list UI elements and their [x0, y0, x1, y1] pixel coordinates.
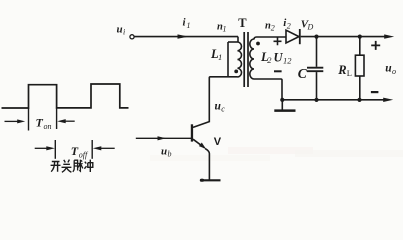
- junction dot secondary bottom: [280, 98, 284, 102]
- minus sign output: [371, 91, 379, 93]
- svg-text:V: V: [214, 136, 222, 148]
- capacitor bottom lead: [316, 72, 318, 100]
- svg-text:D: D: [307, 23, 314, 32]
- capacitor C top lead: [316, 37, 318, 67]
- svg-text:1: 1: [223, 25, 227, 34]
- Toff left arrow: [35, 147, 47, 149]
- svg-text:U: U: [274, 51, 284, 65]
- plus sign output: [371, 41, 380, 50]
- primary bottom lead to collector riser: [209, 77, 237, 122]
- pulse waveform 开关脉冲 square wave: [2, 84, 129, 108]
- transistor collector diagonal: [193, 122, 209, 128]
- transistor base bar: [191, 124, 193, 141]
- top rail arrow: [384, 34, 394, 38]
- svg-text:o: o: [392, 67, 396, 76]
- junction dot RL bottom: [357, 98, 361, 102]
- svg-text:T: T: [71, 144, 79, 158]
- capacitor plate bottom: [307, 70, 323, 72]
- transformer secondary winding L2: coil arcs: [250, 39, 254, 79]
- secondary bottom lead: [254, 79, 282, 100]
- input terminal u_i circle: [130, 35, 134, 39]
- bottom rail wire: [282, 99, 385, 101]
- ground bar secondary: [274, 109, 295, 112]
- top rail wire: [301, 36, 386, 38]
- svg-text:2: 2: [267, 55, 272, 65]
- faint scan smudge pink band: [228, 147, 313, 154]
- plus sign U12: [274, 37, 282, 45]
- svg-text:R: R: [337, 63, 346, 77]
- Toff left tick: [54, 140, 56, 159]
- ground bar transistor: [200, 179, 220, 181]
- primary top lead: [228, 41, 238, 43]
- junction dot diode-capacitor: [314, 35, 318, 39]
- tick: pulse1 left edge extension: [28, 108, 30, 131]
- Ton left arrow: [5, 120, 19, 122]
- Toff right tick: [91, 140, 93, 159]
- transistor V base wire: [136, 137, 191, 139]
- primary left return line: [227, 42, 229, 77]
- transformer core line 2: [247, 32, 249, 87]
- junction dot RL top: [358, 35, 362, 39]
- primary coil arcs: [238, 42, 242, 77]
- faint scan smudge gray band right: [295, 150, 403, 157]
- resistor RL bottom lead: [359, 76, 361, 100]
- tick: pulse1 right edge extension: [56, 108, 58, 129]
- svg-text:u: u: [117, 24, 123, 36]
- svg-text:L: L: [347, 68, 352, 78]
- ground bar left end blob: [200, 179, 204, 182]
- minus sign U12: [274, 70, 282, 72]
- secondary top lead to diode: [254, 37, 286, 40]
- svg-text:T: T: [238, 16, 247, 30]
- emitter arrow head: [199, 143, 206, 149]
- 开关脉冲 caption: char 关: [62, 160, 72, 173]
- Toff right arrow: [101, 147, 115, 149]
- svg-text:1: 1: [218, 52, 222, 62]
- svg-text:C: C: [298, 66, 308, 81]
- transistor emitter diagonal: [193, 139, 205, 148]
- transformer core line 1: [243, 32, 245, 87]
- diode VD triangle: [286, 30, 299, 43]
- resistor RL top lead: [359, 37, 361, 56]
- diode cathode bar: [299, 29, 301, 44]
- polarity dot secondary: [256, 42, 260, 46]
- svg-text:u: u: [161, 146, 167, 158]
- arrow on base wire: [158, 136, 167, 140]
- svg-text:on: on: [44, 122, 52, 131]
- emitter vertical wire: [205, 149, 209, 181]
- faint scan smudge gray band mid: [150, 155, 270, 161]
- svg-text:12: 12: [283, 56, 292, 66]
- polarity dot primary: [234, 70, 238, 74]
- junction dot capacitor bottom: [314, 98, 318, 102]
- 开关脉冲 caption: char 脉: [73, 160, 83, 172]
- wire u_i to transformer primary: [134, 36, 238, 38]
- bottom rail arrow: [383, 98, 393, 102]
- svg-text:2: 2: [287, 22, 291, 31]
- svg-text:b: b: [168, 150, 172, 159]
- Ton right arrow: [63, 120, 75, 122]
- svg-text:T: T: [36, 116, 44, 130]
- transformer primary winding L1: feed drop: [237, 37, 239, 42]
- 开关脉冲 caption: char 开: [51, 162, 61, 172]
- ground stub secondary: [281, 100, 283, 110]
- svg-text:i: i: [123, 28, 125, 37]
- resistor RL box: [355, 55, 364, 76]
- capacitor plate top: [307, 67, 323, 69]
- arrow i1 on wire: [178, 34, 189, 38]
- 开关脉冲 caption: char 冲: [84, 160, 92, 172]
- svg-text:2: 2: [271, 24, 275, 33]
- svg-text:1: 1: [187, 21, 191, 30]
- svg-text:c: c: [221, 105, 225, 114]
